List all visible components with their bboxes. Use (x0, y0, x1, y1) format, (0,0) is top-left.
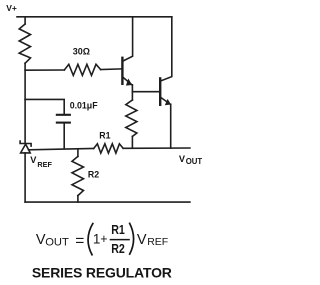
svg-text:V: V (30, 155, 37, 165)
svg-text:REF: REF (37, 160, 52, 169)
svg-text:OUT: OUT (186, 157, 203, 166)
svg-text:V: V (137, 232, 147, 248)
svg-text:R1: R1 (99, 131, 110, 141)
svg-text:R1: R1 (111, 223, 125, 237)
svg-text:30Ω: 30Ω (73, 47, 90, 57)
svg-text:0.01μF: 0.01μF (70, 100, 99, 110)
svg-text:R2: R2 (111, 242, 125, 256)
svg-text:REF: REF (147, 236, 168, 248)
svg-text:=: = (75, 232, 84, 249)
svg-text:SERIES REGULATOR: SERIES REGULATOR (32, 264, 172, 280)
svg-text:OUT: OUT (45, 236, 69, 248)
svg-text:+: + (100, 232, 107, 246)
svg-text:R2: R2 (88, 170, 99, 180)
svg-text:V+: V+ (6, 3, 17, 13)
